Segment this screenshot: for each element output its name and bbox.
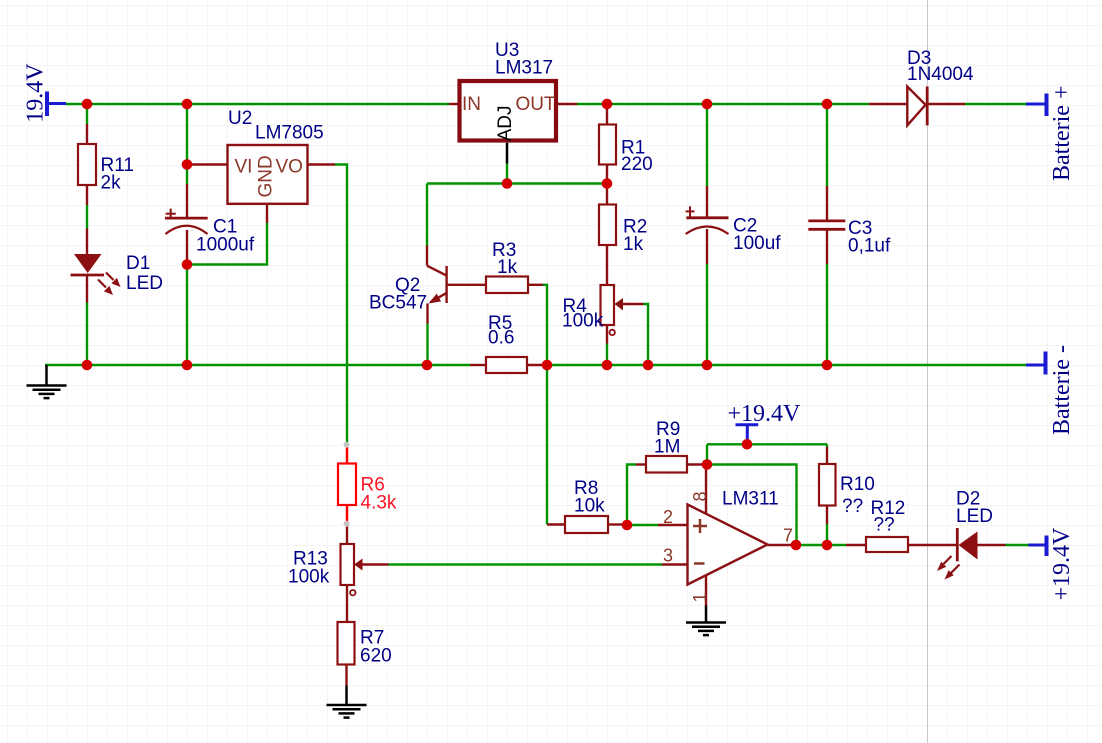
svg-text:??: ?? [874, 515, 895, 536]
svg-text:VO: VO [276, 157, 303, 178]
svg-text:GND: GND [256, 155, 277, 197]
svg-text:620: 620 [360, 646, 392, 667]
svg-text:1k: 1k [623, 234, 644, 255]
svg-text:BC547: BC547 [369, 293, 427, 314]
svg-text:3: 3 [663, 546, 673, 566]
svg-text:8: 8 [690, 491, 710, 501]
svg-text:VI: VI [235, 157, 253, 178]
svg-text:0.6: 0.6 [488, 328, 514, 349]
svg-text:+19.4V: +19.4V [1049, 527, 1075, 601]
svg-text:10k: 10k [574, 496, 605, 517]
svg-text:IN: IN [462, 94, 481, 115]
svg-text:4.3k: 4.3k [361, 493, 397, 514]
svg-text:LED: LED [956, 506, 993, 527]
svg-text:220: 220 [621, 154, 653, 175]
svg-text:ADJ: ADJ [495, 105, 516, 141]
svg-text:R10: R10 [840, 474, 875, 495]
svg-text:LM311: LM311 [722, 489, 779, 510]
svg-text:1: 1 [690, 592, 710, 602]
svg-text:1k: 1k [497, 257, 518, 278]
svg-text:1N4004: 1N4004 [907, 64, 974, 85]
svg-text:U2: U2 [228, 108, 252, 129]
svg-text:100uf: 100uf [733, 233, 781, 254]
svg-text:Batterie -: Batterie - [1049, 345, 1075, 435]
svg-text:+19.4V: +19.4V [728, 401, 802, 427]
svg-text:??: ?? [842, 496, 863, 517]
svg-text:LM317: LM317 [495, 58, 553, 79]
svg-text:100k: 100k [562, 311, 604, 332]
svg-text:2k: 2k [101, 173, 122, 194]
svg-text:OUT: OUT [516, 94, 557, 115]
svg-text:100k: 100k [288, 567, 330, 588]
svg-text:0,1uf: 0,1uf [848, 236, 891, 257]
svg-text:2: 2 [663, 507, 673, 527]
svg-text:7: 7 [783, 526, 793, 546]
svg-text:LM7805: LM7805 [255, 123, 324, 144]
svg-text:Batterie +: Batterie + [1049, 86, 1075, 182]
svg-text:19.4V: 19.4V [23, 63, 49, 123]
svg-text:D1: D1 [126, 253, 150, 274]
svg-text:1000uf: 1000uf [196, 235, 255, 256]
svg-text:LED: LED [126, 273, 163, 294]
svg-text:1M: 1M [654, 437, 680, 458]
